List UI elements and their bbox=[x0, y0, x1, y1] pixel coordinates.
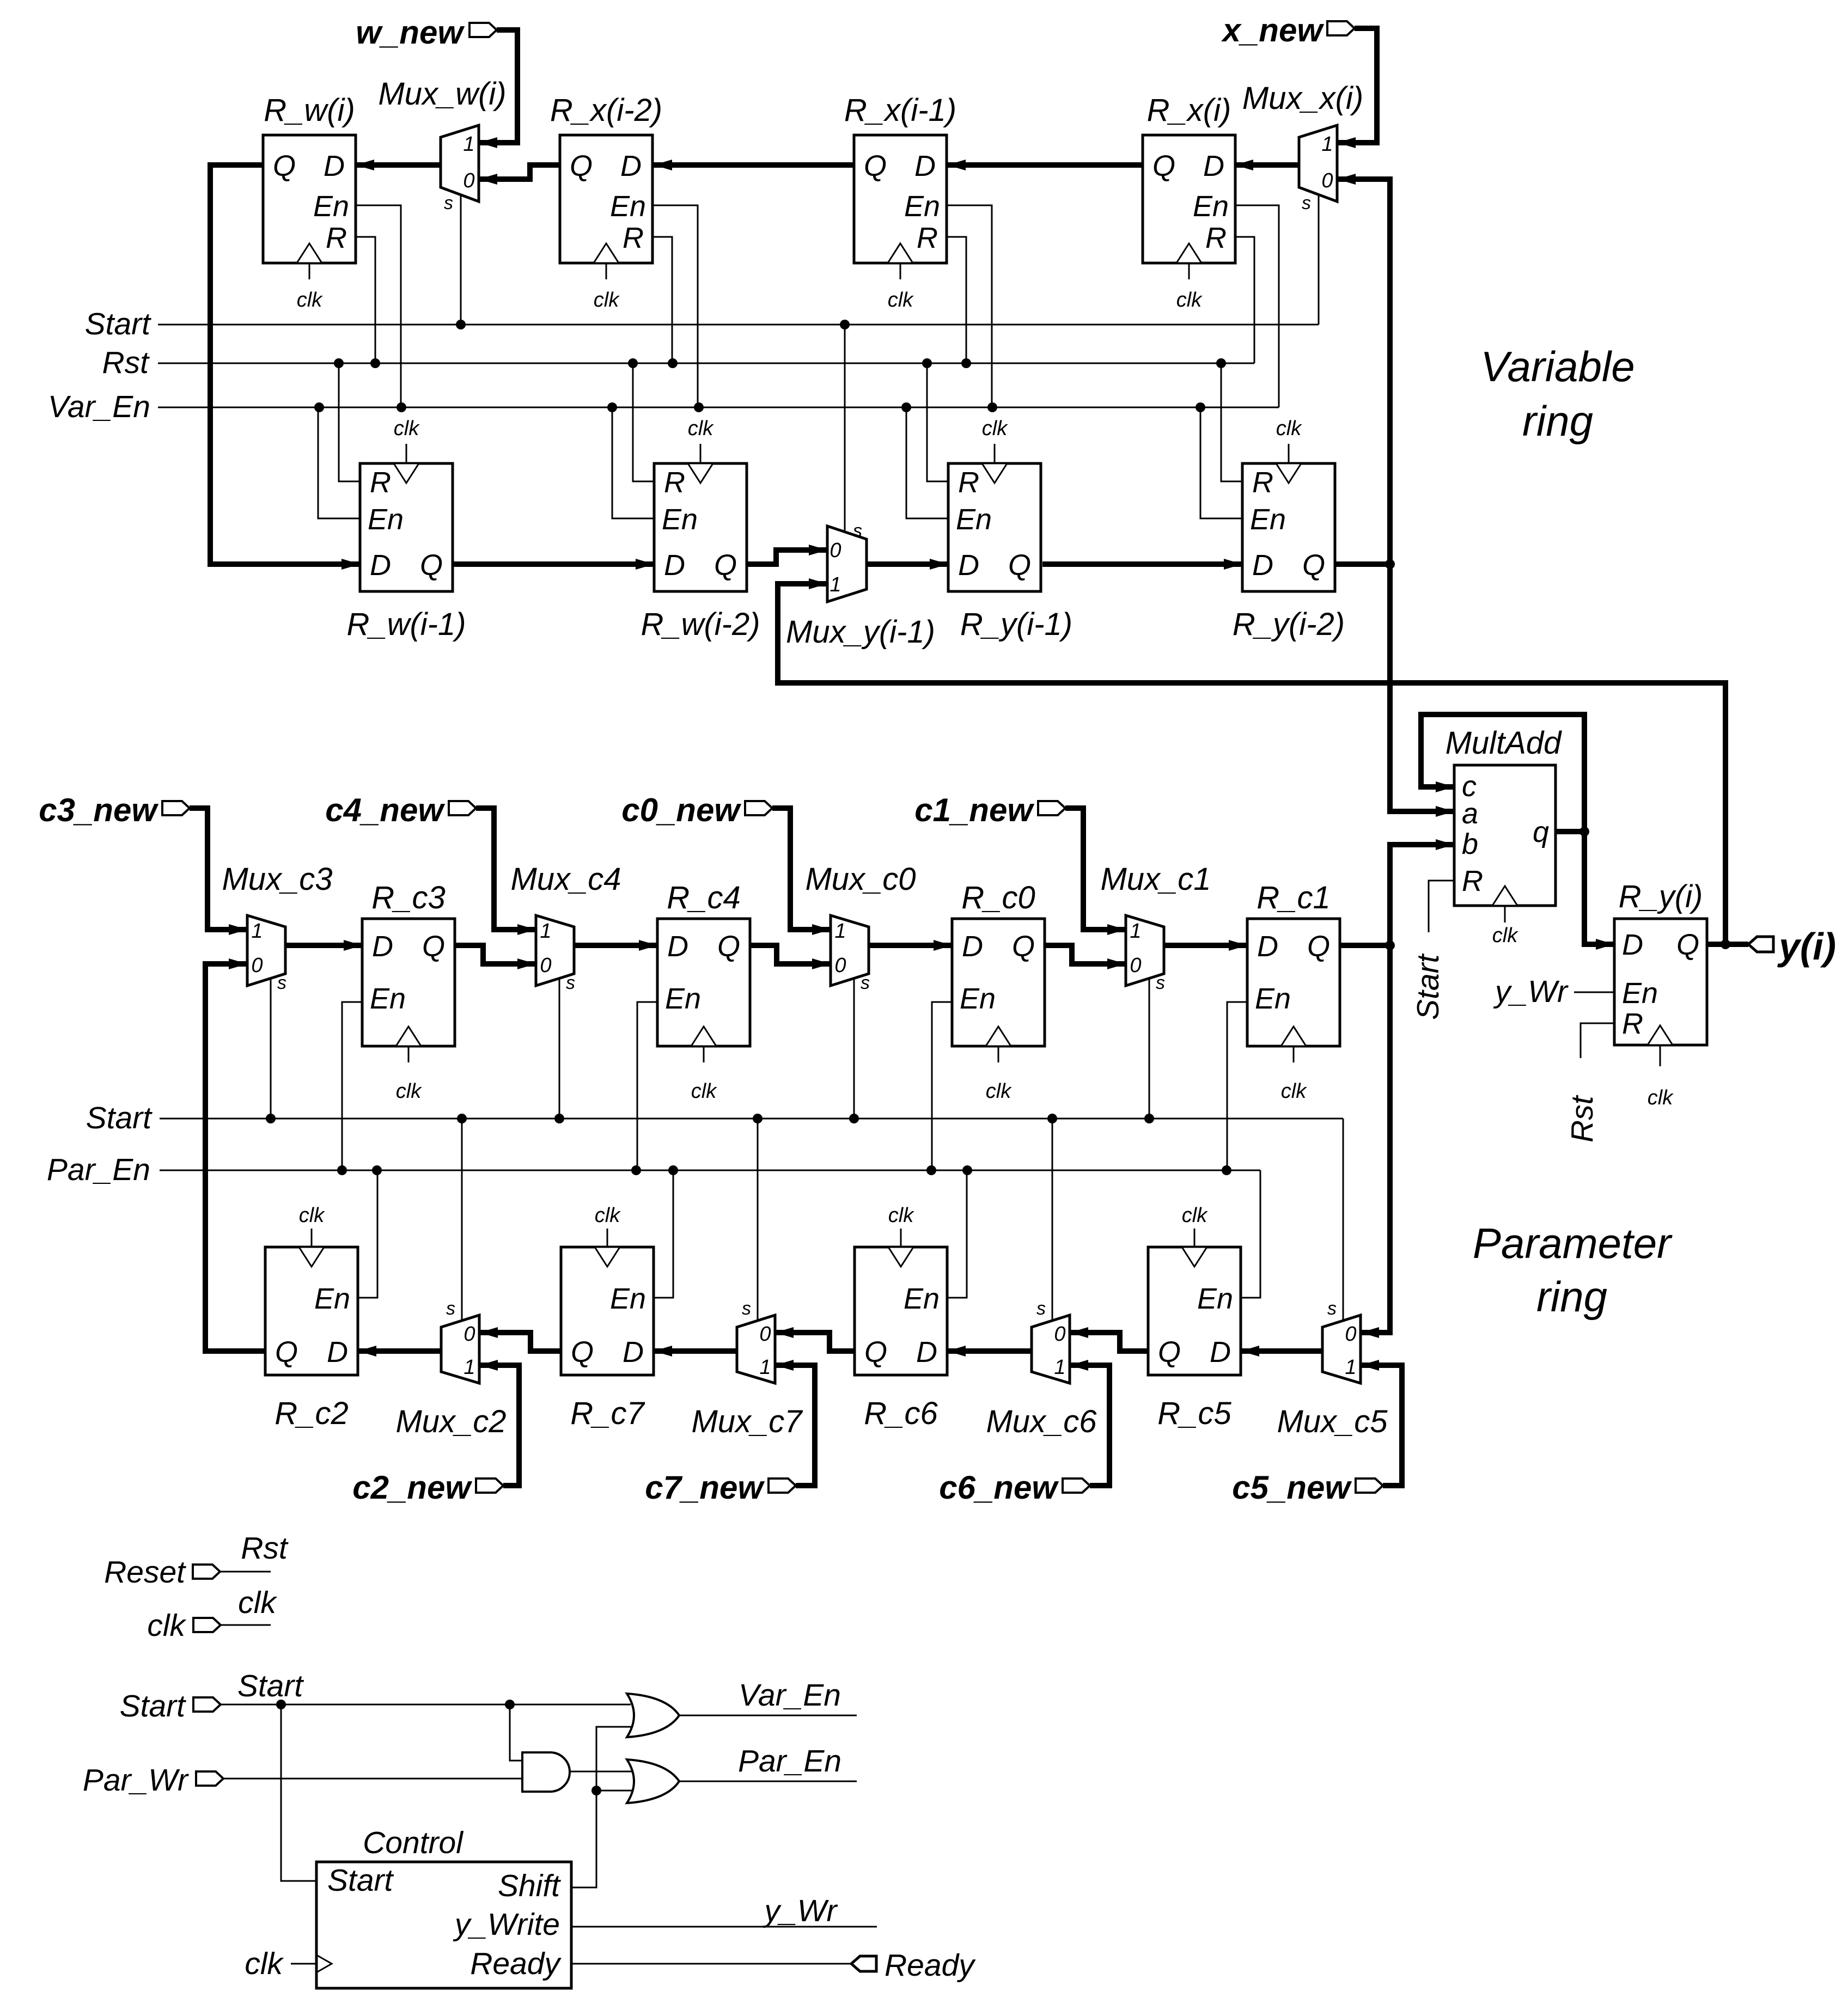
svg-text:y_Wr: y_Wr bbox=[1493, 974, 1569, 1009]
svg-text:1: 1 bbox=[1345, 1356, 1356, 1379]
wire Var_En line to R_w(i-2) En bbox=[612, 407, 654, 518]
wire Mux_x(i) out to R_x(i) D bbox=[1235, 160, 1299, 170]
svg-text:R_x(i-2): R_x(i-2) bbox=[550, 93, 662, 128]
wire Mux_c3 out to R_c3 D bbox=[285, 940, 362, 951]
svg-text:En: En bbox=[313, 190, 349, 223]
wire Par_En output bbox=[679, 1744, 857, 1781]
svg-text:Mux_y(i-1): Mux_y(i-1) bbox=[786, 614, 935, 650]
wire Reset to Rst bbox=[220, 1531, 289, 1572]
svg-text:D: D bbox=[1257, 930, 1278, 963]
wire R_y(i) Q to y(i) output bbox=[1707, 939, 1748, 949]
svg-text:Mux_w(i): Mux_w(i) bbox=[378, 76, 506, 112]
wire Mux_c2 out to R_c2 D bbox=[358, 1346, 441, 1357]
svg-text:0: 0 bbox=[830, 539, 841, 562]
wire Shift to OR gates bbox=[571, 1727, 632, 1887]
svg-text:D: D bbox=[370, 549, 391, 582]
svg-text:1: 1 bbox=[834, 920, 846, 943]
svg-text:Q: Q bbox=[422, 930, 445, 963]
svg-text:D: D bbox=[327, 1336, 348, 1368]
wire w_new to Mux_w(i) input 1 bbox=[479, 30, 517, 148]
wire R_x(i) En to Var_En line bbox=[1235, 205, 1279, 407]
op-amp U1 MultAdd block bbox=[1446, 725, 1563, 947]
wire R_c0 En to Par_En line bbox=[932, 1002, 952, 1170]
svg-text:Mux_c4: Mux_c4 bbox=[510, 862, 621, 897]
gate OR2 (Par_En) bbox=[627, 1759, 679, 1803]
svg-text:s: s bbox=[1327, 1298, 1337, 1319]
svg-text:R_c7: R_c7 bbox=[570, 1396, 645, 1431]
svg-text:s: s bbox=[1302, 193, 1311, 213]
node c2_new input bbox=[352, 1469, 503, 1506]
wire Start to AND gate bbox=[510, 1704, 522, 1761]
svg-text:R: R bbox=[917, 222, 938, 254]
svg-text:y(i): y(i) bbox=[1777, 925, 1836, 968]
svg-text:1: 1 bbox=[1054, 1356, 1065, 1379]
node clk input bbox=[147, 1608, 221, 1643]
svg-text:clk: clk bbox=[986, 1080, 1012, 1103]
svg-text:0: 0 bbox=[834, 954, 846, 977]
svg-text:R_w(i): R_w(i) bbox=[264, 93, 355, 128]
svg-text:Mux_c2: Mux_c2 bbox=[395, 1404, 506, 1439]
svg-text:En: En bbox=[956, 503, 992, 536]
mux Mux_c1 bbox=[1100, 862, 1211, 1119]
svg-text:s: s bbox=[853, 521, 862, 541]
svg-text:Ready: Ready bbox=[885, 1948, 976, 1983]
svg-text:D: D bbox=[1210, 1336, 1231, 1368]
svg-text:Q: Q bbox=[275, 1336, 298, 1368]
svg-text:D: D bbox=[620, 150, 642, 182]
wire Ready output bbox=[571, 1963, 851, 1965]
node c0_new input bbox=[621, 792, 772, 828]
svg-text:0: 0 bbox=[759, 1323, 771, 1346]
svg-text:Start: Start bbox=[1411, 953, 1446, 1020]
svg-text:s: s bbox=[1036, 1298, 1046, 1319]
register R_c6 bbox=[855, 1204, 947, 1431]
svg-text:s: s bbox=[446, 1298, 455, 1319]
wire Par_En net (parameter ring) bbox=[47, 1152, 1260, 1187]
svg-text:D: D bbox=[1203, 150, 1224, 182]
svg-text:En: En bbox=[1197, 1282, 1233, 1315]
wire Mux_c4 out to R_c4 D bbox=[574, 940, 657, 951]
svg-text:Var_En: Var_En bbox=[739, 1678, 841, 1713]
wire c0_new to Mux_c0 input 1 bbox=[772, 808, 831, 935]
wire Mux_c0 out to R_c0 D bbox=[869, 940, 952, 951]
wire c-feedback line to MultAdd b and Mux_c5 input 0 bbox=[1361, 839, 1454, 1338]
svg-text:1: 1 bbox=[540, 920, 551, 943]
svg-text:clk: clk bbox=[1176, 289, 1203, 311]
svg-text:R: R bbox=[326, 222, 347, 254]
svg-text:Mux_x(i): Mux_x(i) bbox=[1242, 81, 1363, 116]
svg-text:Rst: Rst bbox=[1565, 1095, 1600, 1143]
svg-text:clk: clk bbox=[888, 289, 914, 311]
wire R_c2 En to Par_En line bbox=[358, 1170, 377, 1298]
svg-text:Q: Q bbox=[1158, 1336, 1181, 1368]
svg-text:Q: Q bbox=[714, 549, 737, 582]
svg-text:Rst: Rst bbox=[102, 345, 150, 380]
svg-text:Ready: Ready bbox=[470, 1946, 562, 1981]
svg-text:R_c4: R_c4 bbox=[667, 880, 740, 915]
wire R_c2 Q to Mux_c3 input 0 bbox=[205, 958, 265, 1351]
svg-text:Mux_c7: Mux_c7 bbox=[691, 1404, 803, 1439]
svg-text:R: R bbox=[1462, 865, 1483, 897]
svg-text:R: R bbox=[664, 466, 685, 499]
svg-text:s: s bbox=[1156, 973, 1165, 993]
svg-text:Q: Q bbox=[273, 150, 296, 182]
wire R_w(i) R to Rst line bbox=[356, 237, 375, 363]
svg-text:En: En bbox=[610, 190, 646, 223]
svg-text:c5_new: c5_new bbox=[1232, 1469, 1352, 1506]
wire Var_En output bbox=[679, 1678, 857, 1715]
register R_w(i-1) bbox=[346, 417, 466, 642]
svg-text:Variable: Variable bbox=[1480, 343, 1634, 390]
svg-text:Q: Q bbox=[1307, 930, 1330, 963]
wire MultAdd q feedback loop to c input bbox=[1421, 714, 1589, 836]
svg-text:Q: Q bbox=[1152, 150, 1175, 182]
wire Rst line to R_y(i-2) R bbox=[1221, 363, 1242, 481]
svg-text:Q: Q bbox=[570, 150, 593, 182]
svg-text:D: D bbox=[372, 930, 393, 963]
node c6_new input bbox=[939, 1469, 1090, 1506]
wire c5_new to Mux_c5 input 1 bbox=[1361, 1360, 1402, 1486]
node Parameter ring title bbox=[1473, 1219, 1673, 1321]
wire Start net (parameter ring) bbox=[86, 1101, 1343, 1135]
wire Mux_c6 out to R_c6 D bbox=[947, 1346, 1032, 1357]
svg-text:En: En bbox=[1193, 190, 1229, 223]
svg-text:1: 1 bbox=[1321, 133, 1333, 156]
register R_c3 bbox=[362, 880, 455, 1103]
wire Mux_c1 out to R_c1 D bbox=[1164, 940, 1247, 951]
mux Mux_c2 bbox=[395, 1119, 506, 1439]
svg-text:En: En bbox=[904, 190, 940, 223]
svg-text:s: s bbox=[566, 973, 575, 993]
svg-text:R: R bbox=[1205, 222, 1227, 254]
svg-text:c2_new: c2_new bbox=[352, 1469, 472, 1506]
svg-text:1: 1 bbox=[463, 133, 474, 156]
wire Mux_y(i-1) out to R_y(i-1) D bbox=[867, 559, 948, 570]
register R_c4 bbox=[657, 880, 750, 1103]
svg-text:En: En bbox=[314, 1282, 350, 1315]
svg-text:c7_new: c7_new bbox=[645, 1469, 765, 1506]
svg-text:s: s bbox=[444, 193, 453, 213]
wire Var_En net (variable ring) bbox=[48, 389, 1279, 424]
svg-text:R: R bbox=[1622, 1007, 1643, 1040]
svg-text:D: D bbox=[664, 549, 685, 582]
svg-text:Q: Q bbox=[571, 1336, 594, 1368]
mux Mux_y(i-1) bbox=[786, 325, 935, 650]
svg-text:0: 0 bbox=[463, 1323, 475, 1346]
wire R_c0 Q to Mux_c1 input 0 bbox=[1045, 945, 1126, 969]
register R_x(i) bbox=[1143, 93, 1235, 311]
wire R_c6 En to Par_En line bbox=[947, 1170, 967, 1298]
svg-text:1: 1 bbox=[830, 573, 841, 596]
svg-text:R: R bbox=[1252, 466, 1273, 499]
svg-text:En: En bbox=[662, 503, 698, 536]
svg-text:w_new: w_new bbox=[356, 14, 465, 51]
wire Mux_c5 out to R_c5 D bbox=[1241, 1346, 1322, 1357]
register R_c5 bbox=[1148, 1204, 1241, 1431]
svg-text:clk: clk bbox=[688, 417, 714, 440]
svg-text:c0_new: c0_new bbox=[621, 792, 741, 828]
svg-text:y_Write: y_Write bbox=[453, 1907, 560, 1942]
wire R_x(i) Q to R_x(i-1) D bbox=[947, 160, 1143, 170]
svg-text:D: D bbox=[914, 150, 936, 182]
node x_new input bbox=[1221, 12, 1355, 48]
wire R_c5 En to Par_En line bbox=[1241, 1170, 1260, 1298]
svg-text:R: R bbox=[370, 466, 391, 499]
node Par_Wr input bbox=[83, 1763, 223, 1798]
svg-text:s: s bbox=[742, 1298, 751, 1319]
wire R_w(i) En to Var_En line bbox=[356, 205, 401, 407]
svg-text:b: b bbox=[1462, 828, 1478, 860]
svg-text:c6_new: c6_new bbox=[939, 1469, 1059, 1506]
wire Rst net (variable ring) bbox=[102, 345, 1255, 380]
svg-text:clk: clk bbox=[1281, 1080, 1307, 1103]
register R_w(i) bbox=[263, 93, 356, 311]
svg-text:Par_En: Par_En bbox=[47, 1152, 150, 1187]
wire c1_new to Mux_c1 input 1 bbox=[1065, 808, 1126, 935]
svg-text:En: En bbox=[1622, 977, 1658, 1010]
node Ready output connector bbox=[851, 1948, 976, 1983]
svg-text:Var_En: Var_En bbox=[48, 389, 150, 424]
wire R_c3 En to Par_En line bbox=[342, 1002, 362, 1170]
node Variable ring title bbox=[1480, 343, 1634, 445]
wire clk stub bbox=[221, 1585, 277, 1625]
svg-text:Control: Control bbox=[363, 1825, 463, 1860]
svg-text:R_x(i-1): R_x(i-1) bbox=[844, 93, 956, 128]
wire R_w(i) Q to R_w(i-1) D bbox=[210, 165, 360, 570]
svg-text:clk: clk bbox=[1492, 924, 1518, 947]
svg-text:En: En bbox=[368, 503, 404, 536]
wire Start net (control) bbox=[221, 1669, 631, 1709]
svg-text:Par_En: Par_En bbox=[738, 1744, 841, 1779]
wire R_x(i-1) Q to R_x(i-2) D bbox=[654, 160, 854, 170]
node w_new input bbox=[356, 14, 497, 51]
svg-text:En: En bbox=[610, 1282, 646, 1315]
wire R_c5 Q to Mux_c6 input 0 bbox=[1070, 1327, 1148, 1351]
svg-text:clk: clk bbox=[245, 1946, 284, 1981]
mux Mux_w(i) bbox=[378, 76, 506, 325]
svg-text:Parameter: Parameter bbox=[1473, 1219, 1673, 1267]
wire R_w(i-1) Q to R_w(i-2) D bbox=[453, 559, 654, 570]
svg-text:R_c0: R_c0 bbox=[961, 880, 1035, 915]
svg-text:x_new: x_new bbox=[1221, 12, 1325, 48]
svg-text:s: s bbox=[277, 973, 286, 993]
wire MultAdd q to R_y(i) D bbox=[1584, 832, 1614, 950]
svg-text:D: D bbox=[916, 1336, 937, 1368]
wire R_c4 Q to Mux_c0 input 0 bbox=[750, 945, 831, 969]
svg-text:D: D bbox=[1622, 928, 1643, 961]
wire x-feedback line to Mux_x(i) input 0 and MultAdd a bbox=[1337, 174, 1454, 817]
mux Mux_x(i) bbox=[1242, 81, 1363, 325]
node Start input bbox=[120, 1689, 221, 1724]
register R_c2 bbox=[265, 1204, 358, 1431]
svg-text:c1_new: c1_new bbox=[914, 792, 1034, 828]
svg-text:R_y(i-1): R_y(i-1) bbox=[960, 607, 1072, 642]
register R_c1 bbox=[1247, 880, 1340, 1103]
svg-text:R_y(i-2): R_y(i-2) bbox=[1233, 607, 1345, 642]
svg-text:Mux_c3: Mux_c3 bbox=[222, 862, 332, 897]
svg-text:0: 0 bbox=[1321, 169, 1333, 192]
svg-text:R_y(i): R_y(i) bbox=[1619, 879, 1703, 914]
wire Rst line to R_w(i-1) R bbox=[339, 363, 360, 481]
svg-text:clk: clk bbox=[396, 1080, 422, 1103]
svg-text:R_c2: R_c2 bbox=[275, 1396, 348, 1431]
svg-text:R_c1: R_c1 bbox=[1257, 880, 1330, 915]
svg-text:0: 0 bbox=[251, 954, 263, 977]
wire Var_En line to R_w(i-1) En bbox=[318, 407, 360, 518]
node c1_new input bbox=[914, 792, 1065, 828]
svg-text:y_Wr: y_Wr bbox=[763, 1893, 838, 1928]
node y(i) output bbox=[1748, 925, 1836, 968]
wire Rst line to R_w(i-2) R bbox=[633, 363, 654, 481]
svg-text:Q: Q bbox=[1012, 930, 1035, 963]
register R_c7 bbox=[561, 1204, 654, 1431]
wire Start to Control bbox=[281, 1704, 316, 1881]
wire R_w(i-2) Q to Mux_y(i-1) input 0 bbox=[747, 545, 827, 564]
svg-text:Start: Start bbox=[327, 1863, 394, 1898]
svg-text:D: D bbox=[962, 930, 983, 963]
svg-text:clk: clk bbox=[595, 1204, 621, 1227]
wire c7_new to Mux_c7 input 1 bbox=[775, 1360, 815, 1486]
svg-text:Q: Q bbox=[420, 549, 443, 582]
svg-text:clk: clk bbox=[1648, 1086, 1674, 1109]
svg-text:clk: clk bbox=[297, 289, 323, 311]
svg-text:clk: clk bbox=[147, 1608, 186, 1643]
svg-text:Rst: Rst bbox=[241, 1531, 289, 1566]
wire R_y(i-2) Q to x-feedback line bbox=[1335, 561, 1390, 567]
svg-text:0: 0 bbox=[1345, 1323, 1356, 1346]
svg-text:D: D bbox=[667, 930, 688, 963]
svg-text:Q: Q bbox=[864, 1336, 887, 1368]
svg-text:ring: ring bbox=[1522, 397, 1593, 445]
wire Rst line to R_y(i-1) R bbox=[927, 363, 948, 481]
svg-text:En: En bbox=[370, 982, 406, 1015]
node c7_new input bbox=[645, 1469, 796, 1506]
wire R_x(i-2) En to Var_En line bbox=[652, 205, 698, 407]
node Reset input bbox=[104, 1555, 220, 1590]
svg-text:R_w(i-1): R_w(i-1) bbox=[346, 607, 466, 642]
svg-text:c4_new: c4_new bbox=[325, 792, 445, 828]
svg-text:Q: Q bbox=[1676, 928, 1699, 961]
svg-text:D: D bbox=[623, 1336, 644, 1368]
wire Rst to R_y(i) R bbox=[1565, 1023, 1614, 1143]
svg-text:0: 0 bbox=[1054, 1323, 1065, 1346]
svg-text:MultAdd: MultAdd bbox=[1446, 725, 1563, 761]
svg-text:Q: Q bbox=[864, 150, 887, 182]
wire Start to MultAdd R bbox=[1411, 881, 1454, 1020]
svg-text:Mux_c6: Mux_c6 bbox=[986, 1404, 1097, 1439]
wire R_c4 En to Par_En line bbox=[637, 1002, 657, 1170]
svg-text:a: a bbox=[1462, 797, 1478, 830]
svg-text:Start: Start bbox=[86, 1101, 153, 1135]
register R_y(i-1) bbox=[948, 417, 1072, 642]
wire Mux_w(i) out to R_w(i) D bbox=[356, 160, 441, 170]
mux Mux_c0 bbox=[805, 862, 916, 1119]
svg-text:c3_new: c3_new bbox=[39, 792, 158, 828]
node c3_new input bbox=[39, 792, 190, 828]
wire R_x(i-1) En to Var_En line bbox=[947, 205, 992, 407]
svg-text:R_c6: R_c6 bbox=[864, 1396, 938, 1431]
svg-text:1: 1 bbox=[251, 920, 263, 943]
svg-text:R: R bbox=[623, 222, 644, 254]
wire y_Write output bbox=[571, 1893, 877, 1928]
svg-text:Mux_c1: Mux_c1 bbox=[1100, 862, 1211, 897]
mux Mux_c3 bbox=[222, 862, 332, 1119]
wire Var_En line to R_y(i-1) En bbox=[906, 407, 948, 518]
wire c2_new to Mux_c2 input 1 bbox=[479, 1360, 519, 1486]
svg-text:clk: clk bbox=[982, 417, 1008, 440]
svg-text:D: D bbox=[324, 150, 345, 182]
svg-text:R_w(i-2): R_w(i-2) bbox=[641, 607, 760, 642]
svg-text:ring: ring bbox=[1536, 1273, 1607, 1321]
svg-text:En: En bbox=[960, 982, 996, 1015]
svg-text:En: En bbox=[1250, 503, 1286, 536]
wire Mux_c7 out to R_c7 D bbox=[654, 1346, 737, 1357]
svg-text:Reset: Reset bbox=[104, 1555, 186, 1590]
svg-text:clk: clk bbox=[299, 1204, 325, 1227]
wire R_x(i-2) Q to Mux_w(i) input 0 bbox=[479, 165, 560, 185]
wire R_c1 En to Par_En line bbox=[1227, 1002, 1247, 1170]
svg-text:Mux_c0: Mux_c0 bbox=[805, 862, 916, 897]
svg-text:clk: clk bbox=[1182, 1204, 1208, 1227]
svg-text:R_c3: R_c3 bbox=[371, 880, 445, 915]
wire c4_new to Mux_c4 input 1 bbox=[476, 808, 536, 935]
svg-text:clk: clk bbox=[691, 1080, 717, 1103]
svg-text:q: q bbox=[1533, 816, 1549, 848]
wire Start net (variable ring) bbox=[85, 307, 1319, 341]
svg-text:En: En bbox=[665, 982, 701, 1015]
wire y(i) feedback to Mux_y(i-1) input 1 bbox=[778, 578, 1725, 944]
svg-text:Par_Wr: Par_Wr bbox=[83, 1763, 189, 1798]
gate AND (Start & Par_Wr) bbox=[522, 1752, 570, 1792]
svg-text:0: 0 bbox=[540, 954, 551, 977]
svg-text:1: 1 bbox=[1130, 920, 1141, 943]
wire R_c6 Q to Mux_c7 input 0 bbox=[775, 1327, 855, 1351]
mux Mux_c7 bbox=[691, 1119, 803, 1439]
svg-text:Q: Q bbox=[717, 930, 740, 963]
wire y_Wr to R_y(i) En bbox=[1493, 974, 1614, 1009]
svg-text:Shift: Shift bbox=[498, 1868, 561, 1903]
wire AND out to OR2 bbox=[570, 1771, 632, 1773]
node c4_new input bbox=[325, 792, 476, 828]
svg-text:0: 0 bbox=[463, 169, 474, 192]
wire R_x(i-2) R to Rst line bbox=[652, 237, 672, 363]
register R_c0 bbox=[952, 880, 1045, 1103]
node c5_new input bbox=[1232, 1469, 1383, 1506]
svg-text:s: s bbox=[861, 973, 870, 993]
wire R_x(i-1) R to Rst line bbox=[947, 237, 966, 363]
wire R_c7 En to Par_En line bbox=[654, 1170, 673, 1298]
register R_y(i-2) bbox=[1233, 417, 1345, 642]
mux Mux_c5 bbox=[1277, 1119, 1388, 1439]
svg-text:R_c5: R_c5 bbox=[1157, 1396, 1231, 1431]
svg-text:D: D bbox=[958, 549, 979, 582]
wire R_x(i) R to Rst line bbox=[1235, 237, 1254, 363]
svg-text:Start: Start bbox=[85, 307, 152, 341]
svg-text:En: En bbox=[904, 1282, 940, 1315]
svg-text:Start: Start bbox=[237, 1669, 304, 1703]
gate OR1 (Var_En) bbox=[627, 1694, 679, 1737]
svg-text:Start: Start bbox=[120, 1689, 187, 1724]
svg-text:0: 0 bbox=[1130, 954, 1141, 977]
svg-text:R_x(i): R_x(i) bbox=[1147, 93, 1231, 128]
mux Mux_c6 bbox=[986, 1119, 1097, 1439]
svg-text:clk: clk bbox=[888, 1204, 914, 1227]
svg-text:Q: Q bbox=[1302, 549, 1325, 582]
wire clk to Control bbox=[245, 1946, 316, 1981]
svg-text:D: D bbox=[1252, 549, 1273, 582]
register R_y(i) bbox=[1614, 879, 1707, 1109]
svg-text:clk: clk bbox=[394, 417, 420, 440]
